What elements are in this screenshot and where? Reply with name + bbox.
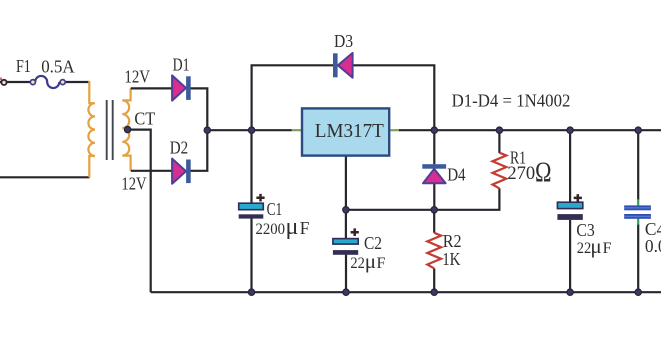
resistor R1 xyxy=(493,153,507,189)
diode D4 xyxy=(422,164,446,183)
svg-text:μ: μ xyxy=(590,234,601,258)
C4 green lead segment top xyxy=(637,199,639,205)
wire bottom ground rail xyxy=(151,291,661,293)
svg-text:D4: D4 xyxy=(447,165,466,185)
svg-text:D1: D1 xyxy=(173,55,190,75)
node rectifier junction xyxy=(204,127,210,133)
diode D2 xyxy=(172,159,191,184)
regulator U1 LM317T xyxy=(302,108,389,155)
svg-text:12V: 12V xyxy=(124,67,150,87)
wire adj node down to C2 xyxy=(345,210,347,239)
node adj R2 xyxy=(431,207,437,213)
transformer T1 primary winding xyxy=(88,81,95,177)
wire C3 top lead xyxy=(569,130,571,202)
wire D2 cathode to junction xyxy=(190,130,207,171)
label 22uF C2 xyxy=(350,249,385,273)
wire C4 bottom lead xyxy=(637,224,639,292)
wire secondary bottom to D2 xyxy=(131,170,173,172)
resistor R2 xyxy=(427,233,441,269)
node ground C2 xyxy=(343,289,349,295)
capacitor C1 xyxy=(239,194,265,219)
svg-text:22: 22 xyxy=(577,240,592,257)
fuse F1 xyxy=(35,76,59,88)
svg-text:LM317T: LM317T xyxy=(315,121,384,142)
wire D1 cathode to junction xyxy=(190,88,207,130)
wire output node down to D4 xyxy=(433,130,435,164)
svg-text:0.01: 0.01 xyxy=(645,236,661,256)
transformer core xyxy=(107,100,113,160)
svg-text:2200: 2200 xyxy=(256,221,286,238)
node ground C1 xyxy=(248,289,254,295)
wire LM317 adj pin down xyxy=(345,156,347,210)
wire junction to LM317 input xyxy=(207,129,292,131)
wire R2 top lead xyxy=(433,210,435,233)
red mark at left edge xyxy=(0,78,2,81)
svg-text:22: 22 xyxy=(350,255,365,272)
capacitor C4 xyxy=(624,205,651,218)
label 2200uF xyxy=(256,214,310,240)
wire CT to ground rail xyxy=(128,130,151,293)
wire C3 to ground rail xyxy=(569,220,571,293)
svg-text:12V: 12V xyxy=(121,174,147,194)
node R1 top xyxy=(496,127,502,133)
label 22uF C3 xyxy=(577,234,612,258)
terminal circle 3 xyxy=(60,80,65,85)
svg-text:F: F xyxy=(300,218,310,238)
LM317 input pin (green) xyxy=(292,129,303,131)
transformer T1 secondary winding xyxy=(122,88,130,170)
node ground C4 xyxy=(635,289,641,295)
diode D1 xyxy=(172,75,191,100)
node C3 top xyxy=(567,127,573,133)
node input xyxy=(248,127,254,133)
svg-text:F: F xyxy=(603,240,612,257)
capacitor C3 xyxy=(557,194,582,220)
node ground C3 xyxy=(567,289,573,295)
wire R2 bottom to ground rail xyxy=(433,268,435,292)
node C4 top xyxy=(635,127,641,133)
wire input bottom from left edge to transformer primary bottom xyxy=(0,176,90,178)
LM317 output pin (green) xyxy=(389,129,400,131)
svg-text:C1: C1 xyxy=(267,199,283,219)
wire LM317 output to right edge xyxy=(399,129,661,131)
capacitor C2 xyxy=(333,228,359,254)
node ground R2 xyxy=(431,289,437,295)
svg-text:D1-D4 = 1N4002: D1-D4 = 1N4002 xyxy=(452,90,571,110)
wire from fuse to transformer primary top xyxy=(59,81,89,83)
wire top rail D3 to output node xyxy=(352,65,434,130)
svg-text:μ: μ xyxy=(286,214,299,240)
svg-text:CT: CT xyxy=(134,108,155,128)
svg-text:R2: R2 xyxy=(443,231,462,251)
node adj C2 xyxy=(343,207,349,213)
node CT center tap xyxy=(124,126,130,132)
terminal circle 1 xyxy=(1,80,6,85)
svg-text:1K: 1K xyxy=(442,249,461,269)
svg-text:D2: D2 xyxy=(170,138,188,158)
wire R1 top lead xyxy=(498,130,500,153)
wire C4 top lead xyxy=(637,130,639,200)
svg-text:0.5A: 0.5A xyxy=(41,57,75,77)
wire C1 to ground rail xyxy=(250,218,252,292)
C4 green lead segment bottom xyxy=(637,219,639,225)
svg-text:Ω: Ω xyxy=(535,158,552,189)
svg-text:F1: F1 xyxy=(16,56,31,76)
wire C2 to ground rail xyxy=(345,255,347,293)
wire adj rail to R1 bottom xyxy=(346,188,500,209)
diode D3 xyxy=(333,53,353,78)
svg-text:F: F xyxy=(377,255,386,272)
wire input node down to C1 xyxy=(250,130,252,203)
node output xyxy=(431,127,437,133)
wire input top from left edge to fuse xyxy=(0,81,35,83)
terminal circle 2 xyxy=(30,80,35,85)
wire D4 anode to adj rail xyxy=(433,183,435,210)
wire top rail up from input node xyxy=(252,65,334,130)
wire secondary top to D1 xyxy=(131,87,173,89)
svg-text:D3: D3 xyxy=(334,31,353,51)
svg-text:270: 270 xyxy=(507,164,535,184)
svg-text:μ: μ xyxy=(365,249,376,273)
